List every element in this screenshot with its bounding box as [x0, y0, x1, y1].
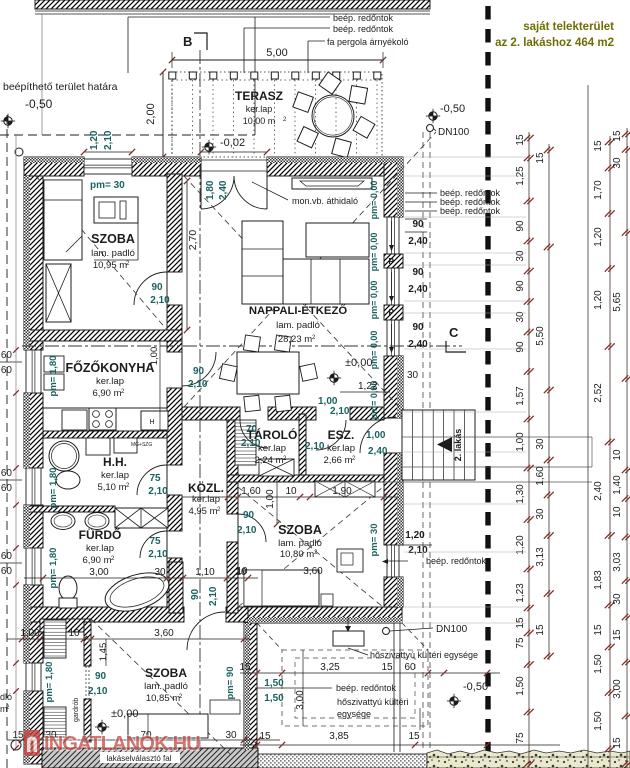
svg-text:gardrób: gardrób [73, 698, 80, 722]
svg-text:fa pergola árnyékoló: fa pergola árnyékoló [327, 37, 409, 47]
svg-text:90: 90 [95, 671, 107, 682]
svg-text:2,40: 2,40 [408, 284, 428, 295]
svg-text:10: 10 [612, 449, 623, 461]
svg-text:FŐZŐKONYHA: FŐZŐKONYHA [66, 360, 155, 375]
svg-text:1,70: 1,70 [593, 180, 604, 200]
svg-text:15: 15 [612, 629, 623, 641]
svg-text:3,13: 3,13 [535, 547, 546, 567]
svg-text:beép. redőntok: beép. redőntok [336, 683, 397, 693]
svg-text:3,00: 3,00 [89, 567, 109, 578]
svg-text:1,20: 1,20 [89, 130, 100, 150]
svg-text:az 2. lakáshoz 464 m2: az 2. lakáshoz 464 m2 [495, 37, 614, 49]
svg-text:60: 60 [1, 566, 13, 577]
svg-text:1,83: 1,83 [593, 570, 604, 590]
svg-text:ker.lap: ker.lap [101, 470, 129, 481]
svg-text:saját telekterület: saját telekterület [523, 21, 614, 33]
svg-text:2,00: 2,00 [145, 103, 157, 124]
svg-text:DN100: DN100 [438, 127, 470, 138]
svg-text:10,85 m: 10,85 m [146, 693, 180, 704]
svg-text:1,00: 1,00 [20, 628, 40, 639]
svg-text:6,90 m: 6,90 m [92, 388, 121, 399]
svg-text:15: 15 [239, 662, 251, 673]
svg-text:pm= 0,00: pm= 0,00 [369, 181, 379, 220]
svg-text:-0,50: -0,50 [25, 97, 53, 111]
svg-text:TERASZ: TERASZ [235, 89, 283, 103]
svg-text:1,30: 1,30 [515, 484, 526, 504]
svg-text:H: H [149, 419, 154, 426]
svg-text:mon.vb. áthidaló: mon.vb. áthidaló [292, 196, 358, 206]
svg-text:dló: dló [0, 692, 12, 702]
svg-text:MG+SZG: MG+SZG [131, 442, 152, 448]
svg-text:1,90: 1,90 [332, 486, 352, 497]
svg-text:15: 15 [612, 130, 623, 142]
svg-text:C: C [449, 325, 459, 340]
svg-text:beépíthető terület határa: beépíthető terület határa [3, 81, 118, 93]
svg-text:75: 75 [149, 536, 161, 547]
svg-text:2,10: 2,10 [88, 686, 108, 697]
svg-text:ker.lap: ker.lap [192, 494, 220, 505]
svg-text:1,50: 1,50 [264, 678, 284, 689]
svg-text:lam. padló: lam. padló [276, 320, 320, 331]
svg-text:90: 90 [412, 267, 424, 278]
svg-text:30: 30 [612, 593, 623, 605]
svg-text:10: 10 [236, 566, 248, 577]
svg-text:1,60: 1,60 [241, 486, 261, 497]
svg-text:pm= 1,80: pm= 1,80 [48, 468, 59, 509]
svg-text:SZOBA: SZOBA [145, 666, 187, 680]
svg-text:60: 60 [1, 468, 13, 479]
svg-text:3,60: 3,60 [303, 566, 323, 577]
svg-text:1,00: 1,00 [149, 347, 160, 366]
svg-text:3,85: 3,85 [329, 731, 349, 742]
svg-text:2,10: 2,10 [241, 438, 261, 449]
svg-text:H.H.: H.H. [103, 455, 127, 469]
svg-text:hőszivattyú kültéri egysége: hőszivattyú kültéri egysége [370, 650, 478, 660]
svg-text:60: 60 [404, 662, 416, 673]
svg-text:3,03: 3,03 [612, 552, 623, 572]
svg-text:1,10: 1,10 [195, 567, 215, 578]
svg-text:90: 90 [151, 282, 163, 293]
svg-text:1,20: 1,20 [593, 227, 604, 247]
svg-text:1,50: 1,50 [515, 676, 526, 696]
svg-text:1,50: 1,50 [264, 693, 284, 704]
svg-text:10,00 m: 10,00 m [243, 116, 276, 126]
svg-text:2,40: 2,40 [593, 481, 604, 501]
svg-text:90: 90 [515, 341, 526, 353]
svg-text:3,00: 3,00 [612, 679, 623, 699]
svg-text:30: 30 [535, 508, 546, 520]
svg-text:2,24 m: 2,24 m [254, 455, 283, 466]
svg-text:5,00: 5,00 [266, 47, 287, 59]
svg-text:90: 90 [515, 220, 526, 232]
svg-text:pm= 1,80: pm= 1,80 [44, 662, 55, 703]
svg-text:2,10: 2,10 [408, 545, 428, 556]
svg-text:1,50: 1,50 [593, 654, 604, 674]
svg-text:1,20: 1,20 [405, 530, 425, 541]
svg-text:15: 15 [259, 731, 271, 742]
svg-text:60: 60 [1, 483, 13, 494]
svg-text:pm= 0,00: pm= 0,00 [369, 233, 379, 272]
svg-text:30: 30 [515, 250, 526, 262]
svg-text:ker.lap: ker.lap [327, 443, 355, 454]
svg-text:10: 10 [612, 506, 623, 518]
svg-text:15: 15 [593, 140, 604, 152]
svg-text:1,22: 1,22 [358, 381, 378, 392]
svg-text:DN100: DN100 [436, 624, 468, 635]
svg-text:2,10: 2,10 [237, 525, 257, 536]
svg-text:2,10: 2,10 [150, 295, 170, 306]
svg-text:pm= 30: pm= 30 [90, 180, 125, 191]
svg-text:5,50: 5,50 [535, 326, 546, 346]
svg-text:1,20: 1,20 [515, 535, 526, 555]
svg-text:15: 15 [612, 737, 623, 749]
svg-text:1,80: 1,80 [205, 180, 216, 200]
svg-text:1,40: 1,40 [612, 475, 623, 495]
svg-text:15: 15 [381, 662, 393, 673]
svg-text:lam. padló: lam. padló [144, 681, 188, 692]
svg-text:-0,02: -0,02 [220, 137, 245, 149]
svg-text:15: 15 [535, 152, 546, 164]
svg-text:60: 60 [1, 365, 13, 376]
svg-text:ker.lap: ker.lap [246, 104, 273, 114]
svg-text:30: 30 [612, 157, 623, 169]
svg-text:90: 90 [412, 219, 424, 230]
svg-text:2,40: 2,40 [408, 339, 428, 350]
svg-text:15: 15 [535, 624, 546, 636]
svg-text:2,66 m: 2,66 m [323, 455, 352, 466]
svg-text:30: 30 [225, 730, 237, 741]
svg-text:2,40: 2,40 [368, 446, 388, 457]
svg-text:1,60: 1,60 [535, 466, 546, 486]
svg-text:10,95 m: 10,95 m [93, 260, 127, 271]
svg-text:70: 70 [246, 424, 258, 435]
svg-text:4,95 m: 4,95 m [188, 506, 217, 517]
svg-text:2,10: 2,10 [103, 130, 114, 150]
svg-text:30: 30 [407, 370, 419, 381]
svg-text:3,25: 3,25 [320, 662, 340, 673]
svg-text:1,00: 1,00 [366, 430, 386, 441]
svg-text:B: B [183, 34, 192, 49]
svg-text:2,40: 2,40 [408, 236, 428, 247]
svg-text:ker.lap: ker.lap [86, 543, 114, 554]
svg-text:ker.lap: ker.lap [96, 376, 124, 387]
svg-text:2,10: 2,10 [188, 379, 208, 390]
svg-text:75: 75 [515, 732, 526, 744]
svg-text:beép. redőntok: beép. redőntok [440, 206, 501, 216]
svg-text:2. lakás: 2. lakás [453, 429, 463, 462]
svg-text:30: 30 [535, 438, 546, 450]
svg-text:60: 60 [1, 350, 13, 361]
svg-text:6,90 m: 6,90 m [82, 555, 111, 566]
svg-text:90: 90 [412, 322, 424, 333]
svg-text:FÜRDŐ: FÜRDŐ [79, 527, 122, 542]
svg-text:SZOBA: SZOBA [91, 232, 135, 246]
svg-text:ker.lap: ker.lap [258, 443, 286, 454]
svg-text:5,65: 5,65 [612, 292, 623, 312]
svg-text:pm= 90: pm= 90 [225, 666, 236, 699]
svg-text:1,23: 1,23 [515, 583, 526, 603]
svg-text:5,10 m: 5,10 m [97, 482, 126, 493]
svg-text:1,57: 1,57 [515, 386, 526, 406]
svg-text:2,10: 2,10 [148, 549, 168, 560]
svg-text:2,10: 2,10 [148, 486, 168, 497]
svg-text:1,00: 1,00 [265, 489, 276, 509]
svg-text:90: 90 [243, 510, 255, 521]
svg-text:INGATLANOK.HU: INGATLANOK.HU [44, 733, 200, 755]
svg-text:2,40: 2,40 [218, 180, 229, 200]
svg-text:2,10: 2,10 [305, 441, 325, 452]
svg-text:±0,00: ±0,00 [345, 357, 372, 369]
svg-text:75: 75 [515, 637, 526, 649]
svg-text:90: 90 [515, 280, 526, 292]
svg-text:2,52: 2,52 [593, 383, 604, 403]
svg-text:1,20: 1,20 [593, 290, 604, 310]
svg-text:P: P [389, 257, 395, 266]
svg-text:10: 10 [68, 628, 80, 639]
svg-text:P: P [389, 308, 395, 317]
svg-text:90: 90 [193, 366, 205, 377]
svg-text:ESZ.: ESZ. [328, 428, 355, 442]
svg-text:15: 15 [593, 624, 604, 636]
svg-text:pm= 0,00: pm= 0,00 [369, 281, 379, 320]
svg-text:egysége: egysége [337, 709, 371, 719]
svg-text:-0,50: -0,50 [463, 681, 488, 693]
svg-text:beép. redőntok: beép. redőntok [333, 13, 394, 23]
svg-text:hőszivattyú kültéri: hőszivattyú kültéri [337, 697, 409, 707]
svg-text:60: 60 [1, 551, 13, 562]
svg-text:30: 30 [154, 567, 166, 578]
svg-text:pm= 1,80: pm= 1,80 [48, 356, 59, 397]
svg-text:2,70: 2,70 [187, 230, 199, 251]
svg-text:NAPPALI-ÉTKEZŐ: NAPPALI-ÉTKEZŐ [249, 304, 348, 317]
svg-text:3,60: 3,60 [154, 628, 174, 639]
svg-text:3,00: 3,00 [295, 690, 306, 710]
svg-text:±0,00: ±0,00 [111, 708, 138, 720]
svg-text:30: 30 [515, 311, 526, 323]
svg-text:15: 15 [12, 730, 24, 741]
svg-text:90: 90 [190, 588, 201, 600]
svg-text:2,10: 2,10 [330, 406, 350, 417]
svg-text:pm= 30: pm= 30 [369, 523, 380, 556]
svg-text:pm= 1,80: pm= 1,80 [48, 548, 59, 589]
svg-text:10: 10 [285, 486, 297, 497]
svg-text:28,23 m: 28,23 m [278, 334, 312, 345]
svg-text:1,50: 1,50 [593, 711, 604, 731]
svg-text:SZOBA: SZOBA [278, 523, 322, 537]
svg-text:2,10: 2,10 [208, 586, 219, 606]
svg-text:1,45: 1,45 [98, 643, 109, 662]
svg-text:75: 75 [149, 473, 161, 484]
svg-text:lakáselválasztó fal: lakáselválasztó fal [107, 754, 172, 763]
svg-text:lam. padló: lam. padló [278, 538, 322, 549]
svg-text:15: 15 [408, 731, 420, 742]
svg-text:beép. redőntok: beép. redőntok [426, 556, 487, 566]
svg-text:10,80 m: 10,80 m [280, 549, 314, 560]
svg-text:-0,50: -0,50 [440, 103, 465, 115]
svg-text:beép. redőntok: beép. redőntok [333, 24, 394, 34]
svg-text:KÖZL.: KÖZL. [188, 480, 224, 495]
svg-text:1,00: 1,00 [515, 432, 526, 452]
svg-text:lam. padló: lam. padló [91, 248, 135, 259]
